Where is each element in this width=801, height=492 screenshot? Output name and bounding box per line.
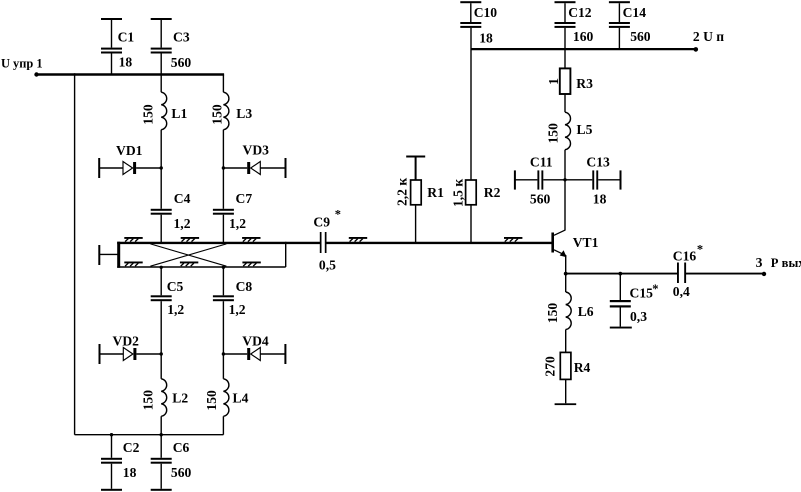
- node bottom wire C2 junction: [110, 433, 113, 436]
- svg-text:VD2: VD2: [113, 333, 140, 348]
- svg-text:C13: C13: [586, 154, 610, 169]
- chassis hatch bottom 1: [124, 262, 142, 267]
- svg-text:18: 18: [479, 30, 493, 45]
- svg-text:C12: C12: [568, 5, 592, 20]
- inductor L3: [209, 75, 252, 169]
- inductor L4: [204, 354, 249, 435]
- capacitor C16: [673, 242, 703, 299]
- chassis hatch top 3: [242, 237, 260, 242]
- svg-text:C3: C3: [173, 30, 190, 45]
- svg-text:3: 3: [756, 255, 763, 270]
- svg-text:0,4: 0,4: [673, 284, 690, 299]
- svg-text:150: 150: [204, 390, 219, 411]
- svg-text:160: 160: [573, 29, 594, 44]
- svg-text:1,2: 1,2: [229, 216, 246, 231]
- wire bottom-left horizontal: [75, 434, 224, 436]
- svg-text:2 U п: 2 U п: [693, 29, 724, 44]
- capacitor C10: [460, 1, 497, 45]
- chassis hatch top 1: [124, 237, 142, 242]
- svg-text:C2: C2: [123, 440, 140, 455]
- svg-text:2,2 к: 2,2 к: [395, 178, 410, 206]
- svg-text:0,3: 0,3: [630, 309, 647, 324]
- svg-text:150: 150: [141, 390, 156, 411]
- svg-text:L5: L5: [577, 122, 593, 137]
- node C15 junction: [618, 272, 622, 276]
- svg-text:18: 18: [119, 55, 133, 70]
- wire top-left horizontal: [37, 73, 225, 75]
- capacitor C6: [151, 435, 192, 491]
- capacitor C5: [151, 267, 185, 354]
- diode VD4: [223, 333, 286, 364]
- svg-text:C10: C10: [474, 5, 498, 20]
- wire main signal line right of C9: [326, 242, 551, 244]
- capacitor C8: [213, 267, 253, 354]
- svg-text:150: 150: [209, 104, 224, 125]
- svg-text:560: 560: [530, 192, 551, 207]
- resistor R2: [451, 28, 501, 243]
- diode VD3: [223, 143, 286, 178]
- wire left vertical: [74, 73, 76, 434]
- capacitor C12: [555, 1, 594, 68]
- inductor L6: [545, 274, 594, 353]
- resistor R3: [546, 68, 593, 112]
- svg-text:L4: L4: [233, 391, 249, 406]
- svg-text:C16: C16: [673, 248, 697, 263]
- wire output line after C16: [686, 273, 764, 275]
- svg-text:L1: L1: [171, 106, 187, 121]
- svg-text:270: 270: [543, 356, 558, 377]
- wire emitter output line: [566, 273, 677, 275]
- chassis hatch main line after C9: [349, 237, 367, 242]
- svg-text:C9: C9: [313, 214, 330, 229]
- svg-text:1,2: 1,2: [174, 216, 191, 231]
- capacitor C4: [151, 168, 191, 243]
- svg-text:L2: L2: [172, 391, 188, 406]
- chassis hatch bottom 2: [180, 262, 198, 267]
- mixer box body: [117, 242, 286, 268]
- svg-text:C11: C11: [530, 154, 553, 169]
- svg-text:C4: C4: [174, 191, 191, 206]
- wire collector lead: [564, 180, 566, 230]
- svg-text:C15: C15: [630, 285, 654, 300]
- svg-text:C6: C6: [173, 440, 190, 455]
- svg-text:1,5 к: 1,5 к: [451, 179, 466, 207]
- svg-text:VD3: VD3: [243, 143, 270, 158]
- svg-text:C8: C8: [236, 279, 253, 294]
- svg-text:R1: R1: [427, 185, 444, 200]
- node VD3-C7 junction: [222, 166, 225, 169]
- mixer box diagonal 2: [150, 244, 226, 266]
- chassis hatch top 2: [181, 237, 199, 242]
- svg-text:150: 150: [140, 104, 155, 125]
- svg-text:L6: L6: [578, 304, 594, 319]
- capacitor C3: [151, 18, 192, 75]
- node supply terminal 2 U p: [693, 29, 724, 52]
- capacitor C1: [101, 18, 134, 75]
- svg-text:C14: C14: [623, 5, 647, 20]
- svg-text:R3: R3: [576, 76, 593, 91]
- node box bottom C8 junction: [222, 266, 225, 269]
- svg-text:150: 150: [545, 303, 560, 324]
- svg-text:*: *: [697, 242, 703, 256]
- mixer box left terminal: [98, 245, 119, 265]
- svg-text:R4: R4: [574, 360, 591, 375]
- svg-text:560: 560: [171, 465, 192, 480]
- svg-text:560: 560: [171, 55, 192, 70]
- svg-text:150: 150: [545, 123, 560, 144]
- capacitor C7: [213, 168, 252, 243]
- wire main signal line left of C9: [117, 242, 320, 244]
- inductor L2: [141, 354, 189, 435]
- svg-text:560: 560: [630, 29, 651, 44]
- capacitor C14: [609, 1, 651, 49]
- inductor L1: [140, 75, 187, 169]
- capacitor C13: [565, 154, 622, 206]
- node bottom wire C6 junction: [160, 433, 163, 436]
- node output terminal 3 P vyh: [756, 255, 801, 276]
- diode VD1: [98, 143, 161, 178]
- svg-text:VD4: VD4: [242, 333, 269, 348]
- node box bottom C5 junction: [160, 266, 163, 269]
- svg-text:L3: L3: [236, 106, 252, 121]
- chassis hatch main line before VT1: [504, 237, 522, 242]
- svg-text:18: 18: [593, 192, 607, 207]
- node input terminal U upr 1: [1, 57, 43, 77]
- svg-text:R2: R2: [484, 185, 501, 200]
- wire supply rail: [471, 48, 694, 50]
- svg-text:C1: C1: [118, 30, 135, 45]
- node C11-C13-L5 junction: [563, 178, 566, 181]
- mixer box diagonal 1: [150, 244, 226, 266]
- capacitor C15: [610, 274, 659, 329]
- svg-text:1,2: 1,2: [167, 302, 184, 317]
- capacitor C9: [313, 208, 341, 273]
- ground below R4: [555, 403, 577, 405]
- svg-text:Р вых: Р вых: [771, 256, 801, 270]
- svg-text:C5: C5: [167, 279, 184, 294]
- chassis hatch bottom 3: [242, 262, 260, 267]
- node emitter junction: [564, 272, 568, 276]
- svg-text:1: 1: [546, 78, 561, 85]
- capacitor C11: [514, 154, 565, 206]
- svg-text:C7: C7: [236, 191, 253, 206]
- capacitor C2: [101, 435, 140, 491]
- resistor R4: [543, 352, 591, 403]
- svg-text:*: *: [335, 208, 341, 222]
- resistor R1: [395, 156, 444, 243]
- svg-text:VT1: VT1: [573, 235, 599, 250]
- node VD4-L4 junction: [222, 352, 225, 355]
- transistor VT1: [551, 230, 598, 274]
- inductor L5: [545, 112, 592, 180]
- svg-text:18: 18: [123, 465, 137, 480]
- svg-text:*: *: [652, 282, 658, 296]
- node VD1-C4 junction: [160, 166, 163, 169]
- svg-text:0,5: 0,5: [319, 257, 336, 272]
- node VD2-L2 junction: [160, 352, 163, 355]
- svg-text:U упр 1: U упр 1: [1, 57, 43, 71]
- svg-text:VD1: VD1: [116, 143, 143, 158]
- diode VD2: [99, 333, 162, 364]
- svg-text:1,2: 1,2: [229, 302, 246, 317]
